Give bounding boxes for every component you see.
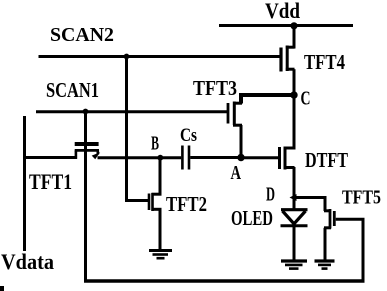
svg-text:D: D [266,184,275,206]
svg-text:TFT1: TFT1 [29,169,72,194]
transistor TFT3 [228,102,242,126]
wire TFT4 source to node C [293,69,296,96]
wire TFT3 drain to node C [241,95,294,104]
node C junction [290,91,297,98]
transistor TFT5 (mirrored) [324,209,334,229]
node junction SCAN1 [83,109,89,115]
wire SCAN2 line to TFT4 gate [39,55,280,58]
wire node A to DTFT gate [241,156,278,159]
ground OLED [281,261,307,269]
wire node C to DTFT drain [293,95,296,150]
svg-text:TFT3: TFT3 [193,76,237,100]
capacitor Cs [182,146,189,170]
transistor TFT4 [281,46,295,72]
node B junction [157,155,163,161]
wire TFT2 source to ground [159,209,162,250]
transistor TFT1 [75,144,99,159]
svg-text:Vdd: Vdd [265,0,300,23]
svg-text:TFT5: TFT5 [342,187,381,209]
svg-text:SCAN1: SCAN1 [46,78,99,102]
svg-text:SCAN2: SCAN2 [50,24,114,46]
ground TFT2 [149,251,172,259]
node junction SCAN2 [124,54,130,60]
corner artifact [0,286,4,291]
arrowhead TFT1 source [92,152,101,159]
wire node B rail (Vdata line to Cs) [25,156,77,159]
svg-text:TFT4: TFT4 [304,50,345,74]
svg-text:C: C [301,88,311,110]
node D arrowhead junction [290,194,297,201]
wire node D to TFT5 drain [294,198,325,212]
node junction on Vdd rail [290,22,297,29]
svg-text:DTFT: DTFT [305,148,348,172]
wire TFT5 gate to bottom rail [336,219,363,281]
transistor TFT2 [149,193,162,211]
wire SCAN1 down to bottom rail [84,112,87,283]
wire TFT5 source to ground [324,228,327,260]
wire bottom rail [84,279,365,283]
wire SCAN2 down to TFT2 gate [127,57,149,201]
svg-text:B: B [151,133,159,155]
wire OLED cathode to ground [293,226,296,260]
svg-text:Cs: Cs [180,125,197,146]
wire TFT4 drain to Vdd [293,24,296,49]
svg-text:OLED: OLED [231,206,273,230]
wire TFT3 source to node A [240,125,243,158]
wire SCAN1 line to TFT3 gate [36,110,227,113]
wire Cs to node A [190,156,241,159]
wire DTFT source to node D [293,167,296,199]
wire Vdd rail [219,24,353,27]
transistor DTFT [280,147,295,170]
svg-text:A: A [231,162,242,184]
ground TFT5 [315,261,335,269]
wire node D to OLED anode [293,198,296,211]
wire TFT2 drain up to node B [159,158,162,195]
node A junction [237,154,244,161]
svg-text:Vdata: Vdata [1,249,54,274]
svg-text:TFT2: TFT2 [166,192,207,216]
wire Vdata vertical line [23,116,26,251]
diode OLED [281,210,308,226]
